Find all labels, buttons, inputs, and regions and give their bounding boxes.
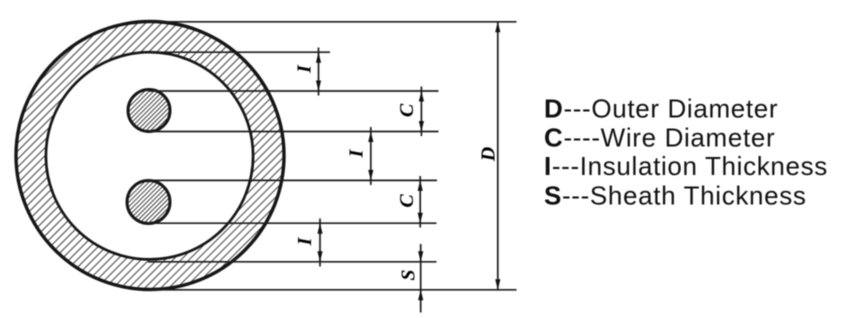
svg-text:I: I xyxy=(294,64,316,74)
wire: inner-top tangent line xyxy=(150,51,330,53)
dimension S (sheath thickness, arrows outside) xyxy=(420,244,422,313)
wire conductor top xyxy=(128,90,170,132)
wire: lower conductor top tangent line xyxy=(148,179,437,181)
dimension D (outer diameter) xyxy=(497,22,499,290)
svg-text:D---Outer Diameter: D---Outer Diameter xyxy=(544,94,778,124)
svg-text:C: C xyxy=(396,194,418,208)
sheath ring hatch fill xyxy=(16,22,284,290)
wire: lower conductor bottom tangent line xyxy=(148,222,437,224)
inner circle (sheath inner wall) xyxy=(46,52,253,259)
svg-text:S: S xyxy=(398,269,420,280)
wire conductor bottom xyxy=(127,181,170,224)
dimension I1 (top insulation) xyxy=(318,48,320,96)
wire: upper conductor top tangent line xyxy=(149,90,439,92)
svg-text:D: D xyxy=(478,147,500,162)
svg-text:I: I xyxy=(346,148,368,158)
dimension C1 (upper wire diameter) xyxy=(420,87,422,137)
wire: upper conductor bottom tangent line xyxy=(149,131,439,133)
dimension I3 (bottom insulation) xyxy=(319,219,321,267)
wire: outer-top tangent line xyxy=(150,21,517,23)
outer circle (cable outer diameter) xyxy=(16,22,284,290)
svg-text:C----Wire Diameter: C----Wire Diameter xyxy=(544,122,775,152)
svg-text:C: C xyxy=(396,103,418,117)
dimension C2 (lower wire diameter) xyxy=(419,176,421,228)
dimension I2 (middle insulation) xyxy=(370,127,372,185)
svg-text:I---Insulation Thickness: I---Insulation Thickness xyxy=(544,151,828,181)
wire: inner-bottom tangent line xyxy=(148,261,437,263)
svg-text:S---Sheath Thickness: S---Sheath Thickness xyxy=(544,180,807,210)
svg-text:I: I xyxy=(294,236,316,246)
wire: outer-bottom tangent line xyxy=(150,289,517,291)
